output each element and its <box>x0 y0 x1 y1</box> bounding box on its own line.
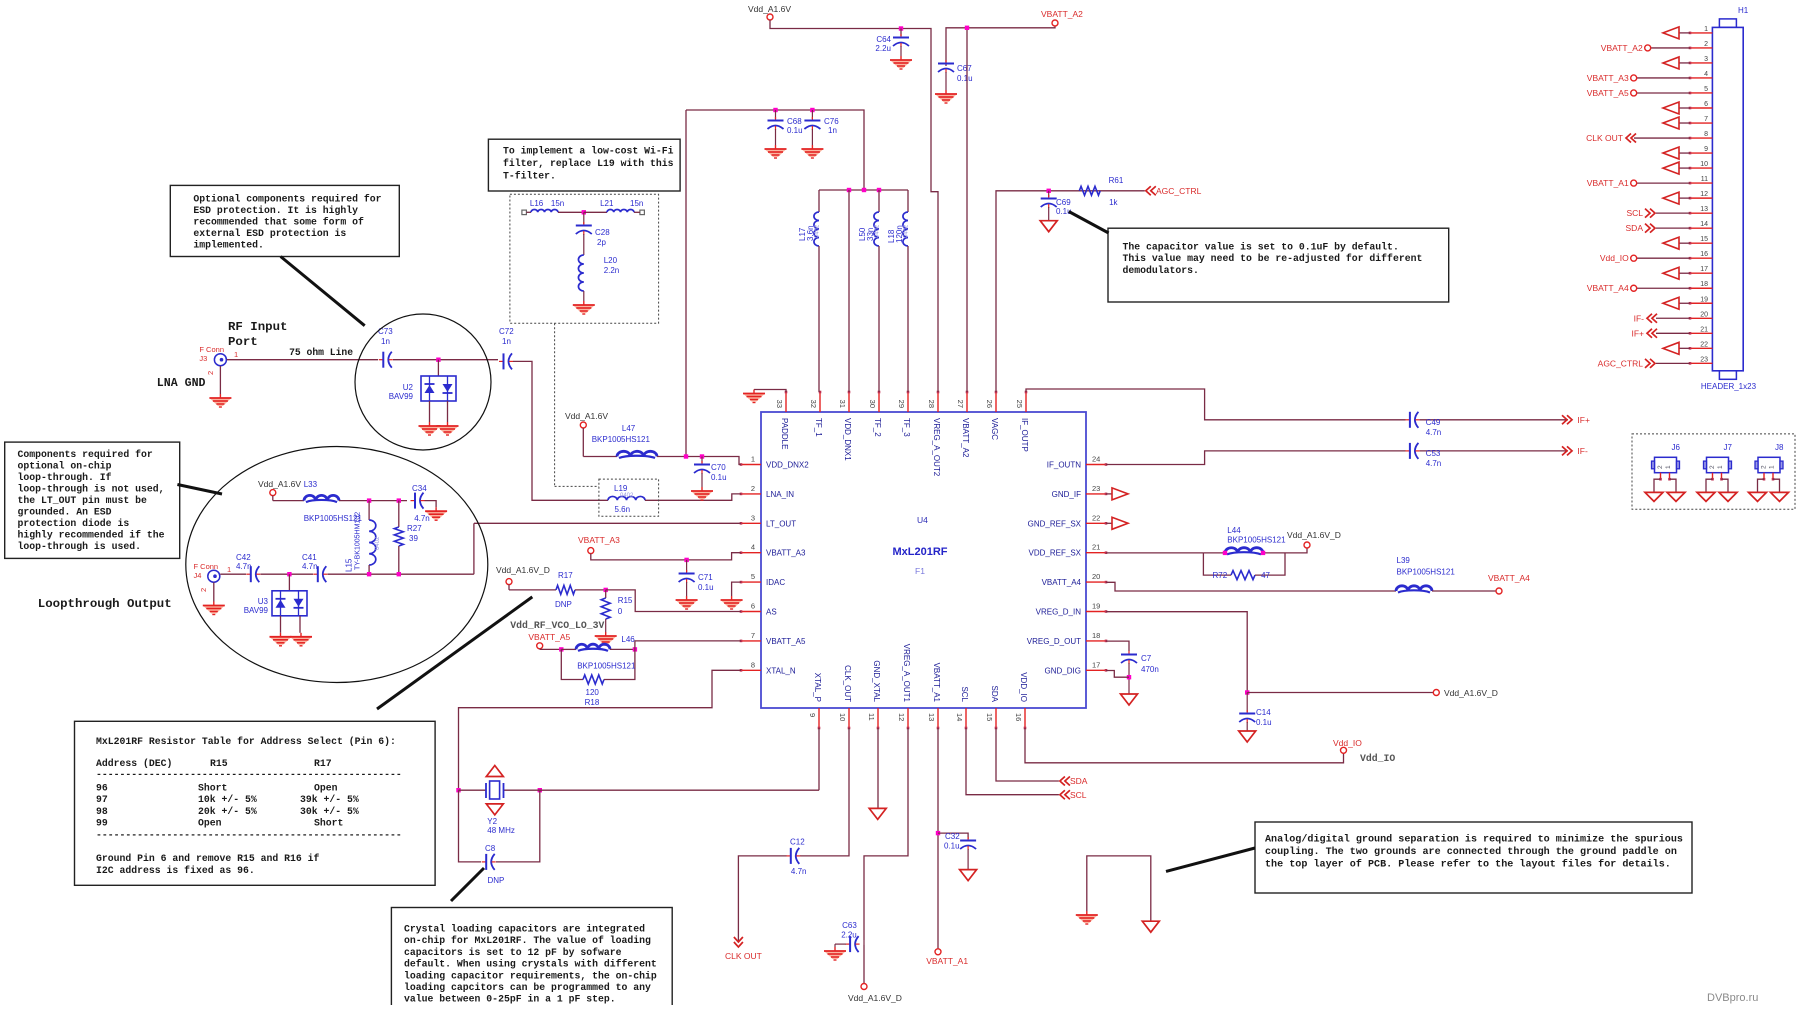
svg-text:VBATT_A5: VBATT_A5 <box>1587 88 1629 98</box>
svg-text:F1: F1 <box>915 566 925 576</box>
svg-text:filter, replace L19 with this: filter, replace L19 with this <box>503 158 674 169</box>
svg-text:VREG_D_IN: VREG_D_IN <box>1036 608 1082 617</box>
svg-text:TF_2: TF_2 <box>873 418 882 437</box>
svg-text:10: 10 <box>838 713 847 721</box>
svg-text:BKP1005HS121: BKP1005HS121 <box>1397 568 1456 577</box>
svg-text:loop-through is not used,: loop-through is not used, <box>18 484 165 495</box>
svg-text:C72: C72 <box>499 327 514 336</box>
svg-text:VBATT_A4: VBATT_A4 <box>1042 578 1082 587</box>
svg-text:15: 15 <box>1700 236 1708 243</box>
svg-text:TF_3: TF_3 <box>902 418 911 437</box>
svg-text:97: 97 <box>96 794 108 805</box>
svg-text:C68: C68 <box>787 117 802 126</box>
svg-text:coupling. The two grounds are: coupling. The two grounds are connected … <box>1265 846 1677 858</box>
svg-text:C8: C8 <box>485 844 496 853</box>
svg-text:PADDLE: PADDLE <box>780 418 789 449</box>
svg-text:Open: Open <box>198 818 222 829</box>
svg-text:20: 20 <box>1092 572 1100 581</box>
svg-text:3: 3 <box>751 513 755 522</box>
svg-text:0: 0 <box>618 607 623 616</box>
svg-text:L16: L16 <box>530 199 544 208</box>
svg-text:SDA: SDA <box>990 686 999 703</box>
svg-text:optional on-chip: optional on-chip <box>18 461 112 472</box>
svg-text:ESD protection. It is highly: ESD protection. It is highly <box>193 205 358 216</box>
svg-text:BKP1005HS121: BKP1005HS121 <box>592 435 651 444</box>
svg-text:22: 22 <box>1092 513 1100 522</box>
svg-text:0402: 0402 <box>375 536 381 550</box>
svg-text:BKP1005HS121: BKP1005HS121 <box>577 662 636 671</box>
svg-text:96: 96 <box>96 783 108 794</box>
svg-text:implemented.: implemented. <box>193 240 264 251</box>
svg-text:20k +/- 5%: 20k +/- 5% <box>198 806 257 817</box>
svg-text:R61: R61 <box>1109 176 1124 185</box>
svg-text:R17: R17 <box>558 571 573 580</box>
svg-text:0402: 0402 <box>620 493 634 499</box>
svg-text:L15: L15 <box>345 558 354 572</box>
svg-text:1: 1 <box>751 455 755 464</box>
svg-text:21: 21 <box>1092 543 1100 552</box>
svg-text:CLK_OUT: CLK_OUT <box>843 665 852 702</box>
svg-text:T-filter.: T-filter. <box>503 171 556 182</box>
svg-text:0.1u: 0.1u <box>711 473 727 482</box>
svg-text:2: 2 <box>751 484 755 493</box>
svg-text:17: 17 <box>1700 266 1708 273</box>
svg-text:19: 19 <box>1700 296 1708 303</box>
svg-text:Short: Short <box>314 818 343 829</box>
svg-text:loop-through is used.: loop-through is used. <box>18 541 141 552</box>
svg-text:1: 1 <box>1665 465 1672 469</box>
svg-text:14: 14 <box>1700 221 1708 228</box>
svg-text:22: 22 <box>1700 341 1708 348</box>
svg-text:I2C address is fixed as 96.: I2C address is fixed as 96. <box>96 865 255 876</box>
svg-text:4.7n: 4.7n <box>236 562 252 571</box>
svg-text:13: 13 <box>1700 206 1708 213</box>
svg-text:BAV99: BAV99 <box>389 392 414 401</box>
svg-text:IF_OUTP: IF_OUTP <box>1020 418 1029 452</box>
svg-text:30: 30 <box>868 400 877 408</box>
svg-text:9: 9 <box>808 713 817 717</box>
svg-text:value between 0-25pF in a 1 pF: value between 0-25pF in a 1 pF step. <box>404 994 616 1005</box>
svg-text:AS: AS <box>766 608 777 617</box>
svg-text:LNA_IN: LNA_IN <box>766 490 794 499</box>
svg-text:C7: C7 <box>1141 654 1152 663</box>
svg-text:R18: R18 <box>585 698 600 707</box>
svg-text:H1: H1 <box>1738 6 1749 15</box>
svg-text:18: 18 <box>1700 281 1708 288</box>
svg-text:0.1u: 0.1u <box>1256 718 1272 727</box>
svg-text:23: 23 <box>1700 356 1708 363</box>
svg-text:C63: C63 <box>842 921 857 930</box>
svg-text:6: 6 <box>751 602 755 611</box>
svg-text:26: 26 <box>985 400 994 408</box>
svg-text:LT_OUT: LT_OUT <box>766 519 796 528</box>
svg-text:2.2n: 2.2n <box>604 266 620 275</box>
svg-text:MxL201RF Resistor Table for Ad: MxL201RF Resistor Table for Address Sele… <box>96 736 396 747</box>
svg-text:13: 13 <box>927 713 936 721</box>
svg-text:Vdd_A1.6V: Vdd_A1.6V <box>748 4 791 14</box>
svg-text:Ground Pin 6 and remove R15 an: Ground Pin 6 and remove R15 and R16 if <box>96 853 320 864</box>
svg-text:Analog/digital ground separati: Analog/digital ground separation is requ… <box>1265 834 1683 846</box>
svg-text:VDD_DNX1: VDD_DNX1 <box>843 418 852 461</box>
svg-text:2: 2 <box>199 588 208 592</box>
svg-text:BKP1005HS121: BKP1005HS121 <box>1227 536 1286 545</box>
svg-text:19: 19 <box>1092 602 1100 611</box>
svg-text:Vdd_A1.6V: Vdd_A1.6V <box>258 479 301 489</box>
svg-text:28: 28 <box>927 400 936 408</box>
svg-text:25: 25 <box>1015 400 1024 408</box>
svg-text:4: 4 <box>751 543 755 552</box>
svg-text:SDA: SDA <box>1070 776 1088 786</box>
svg-text:5: 5 <box>1704 86 1708 93</box>
svg-text:Y2: Y2 <box>487 817 497 826</box>
svg-text:VBATT_A1: VBATT_A1 <box>932 663 941 703</box>
svg-text:C42: C42 <box>236 553 251 562</box>
svg-text:------------------------------: ----------------------------------------… <box>96 830 402 841</box>
svg-text:L47: L47 <box>622 424 636 433</box>
svg-text:Vdd_A1.6V_D: Vdd_A1.6V_D <box>1444 688 1498 698</box>
svg-text:4.7n: 4.7n <box>791 867 807 876</box>
svg-text:------------------------------: ----------------------------------------… <box>96 769 402 780</box>
svg-text:F Conn: F Conn <box>199 345 224 354</box>
svg-text:loading capacitor requirements: loading capacitor requirements, the on-c… <box>404 970 657 981</box>
svg-text:VDD_DNX2: VDD_DNX2 <box>766 461 809 470</box>
svg-text:J6: J6 <box>1672 443 1681 452</box>
svg-text:75 ohm Line: 75 ohm Line <box>289 347 353 358</box>
svg-text:Vdd_IO: Vdd_IO <box>1360 753 1395 764</box>
svg-text:4.7n: 4.7n <box>414 514 430 523</box>
svg-text:R15: R15 <box>210 758 228 769</box>
svg-text:15n: 15n <box>551 199 564 208</box>
svg-text:39: 39 <box>409 534 418 543</box>
svg-text:C14: C14 <box>1256 708 1271 717</box>
svg-text:XTAL_N: XTAL_N <box>766 666 796 675</box>
svg-text:J7: J7 <box>1724 443 1733 452</box>
svg-text:2.2u: 2.2u <box>841 931 857 940</box>
svg-text:0402: 0402 <box>904 224 910 238</box>
svg-text:20: 20 <box>1700 311 1708 318</box>
svg-text:highly recommended if the: highly recommended if the <box>18 530 165 541</box>
svg-text:VBATT_A5: VBATT_A5 <box>766 637 806 646</box>
svg-text:2: 2 <box>1657 465 1664 469</box>
svg-text:C28: C28 <box>595 228 610 237</box>
svg-text:11: 11 <box>1701 176 1708 183</box>
svg-text:VAGC: VAGC <box>990 418 999 440</box>
svg-text:demodulators.: demodulators. <box>1123 265 1199 276</box>
svg-text:HEADER_1x23: HEADER_1x23 <box>1701 382 1757 391</box>
svg-text:48 MHz: 48 MHz <box>487 826 515 835</box>
svg-text:4.7n: 4.7n <box>1426 459 1442 468</box>
svg-text:external ESD protection is: external ESD protection is <box>193 228 346 239</box>
svg-text:Crystal loading capacitors are: Crystal loading capacitors are integrate… <box>404 924 645 935</box>
svg-text:GND_REF_SX: GND_REF_SX <box>1028 519 1082 528</box>
svg-text:6: 6 <box>1704 101 1708 108</box>
svg-text:VREG_A_OUT1: VREG_A_OUT1 <box>902 644 911 703</box>
svg-text:VDD_REF_SX: VDD_REF_SX <box>1029 549 1082 558</box>
svg-text:VBATT_A2: VBATT_A2 <box>1041 9 1083 19</box>
svg-text:47: 47 <box>1261 571 1270 580</box>
svg-text:VREG_A_OUT2: VREG_A_OUT2 <box>932 418 941 477</box>
svg-text:SDA: SDA <box>1626 223 1644 233</box>
svg-text:32: 32 <box>809 400 818 408</box>
svg-text:loop-through. If: loop-through. If <box>18 472 112 483</box>
svg-text:L39: L39 <box>1397 556 1411 565</box>
svg-text:5.6n: 5.6n <box>615 505 631 514</box>
svg-text:VBATT_A3: VBATT_A3 <box>578 535 620 545</box>
svg-text:CLK OUT: CLK OUT <box>725 951 762 961</box>
svg-text:LNA GND: LNA GND <box>157 377 206 390</box>
svg-text:27: 27 <box>956 400 965 408</box>
svg-text:grounded. An ESD: grounded. An ESD <box>18 507 112 518</box>
svg-text:U2: U2 <box>403 383 414 392</box>
svg-text:SCL: SCL <box>960 686 969 702</box>
svg-text:33: 33 <box>775 400 784 408</box>
svg-text:16: 16 <box>1014 713 1023 721</box>
svg-text:4: 4 <box>1704 71 1708 78</box>
svg-text:8: 8 <box>751 660 755 669</box>
svg-text:J3: J3 <box>199 354 207 363</box>
svg-text:R17: R17 <box>314 758 332 769</box>
svg-text:Optional components required f: Optional components required for <box>193 194 381 205</box>
svg-text:16: 16 <box>1700 251 1708 258</box>
svg-text:0.1u: 0.1u <box>957 74 973 83</box>
svg-text:3: 3 <box>1704 56 1708 63</box>
svg-text:2: 2 <box>1709 465 1716 469</box>
svg-text:L20: L20 <box>604 256 618 265</box>
svg-text:TY-BK1005HM102: TY-BK1005HM102 <box>355 512 362 570</box>
svg-text:default. When using crystals: default. When using crystals with differ… <box>404 959 657 970</box>
svg-text:L21: L21 <box>600 199 614 208</box>
svg-text:1: 1 <box>227 565 231 574</box>
svg-text:C69: C69 <box>1056 198 1071 207</box>
svg-text:10: 10 <box>1700 161 1708 168</box>
svg-text:1n: 1n <box>381 337 390 346</box>
svg-text:C67: C67 <box>957 64 972 73</box>
svg-text:1: 1 <box>1704 26 1708 33</box>
svg-text:DVBpro.ru: DVBpro.ru <box>1707 992 1758 1004</box>
svg-text:Vdd_A1.6V_D: Vdd_A1.6V_D <box>1287 530 1341 540</box>
svg-text:VBATT_A5: VBATT_A5 <box>528 632 570 642</box>
svg-text:Short: Short <box>198 783 227 794</box>
svg-text:VBATT_A1: VBATT_A1 <box>926 956 968 966</box>
svg-text:IF+: IF+ <box>1631 328 1644 338</box>
svg-text:L46: L46 <box>621 635 635 644</box>
svg-text:L33: L33 <box>304 480 318 489</box>
svg-text:2: 2 <box>206 371 215 375</box>
svg-text:0402: 0402 <box>815 224 821 238</box>
svg-text:C64: C64 <box>876 35 891 44</box>
svg-text:C53: C53 <box>1426 449 1441 458</box>
svg-text:Vdd_A1.6V_D: Vdd_A1.6V_D <box>496 565 550 575</box>
svg-text:C34: C34 <box>412 484 427 493</box>
svg-text:Open: Open <box>314 783 338 794</box>
svg-text:12: 12 <box>897 713 906 721</box>
svg-text:R15: R15 <box>618 596 633 605</box>
svg-text:L19: L19 <box>614 484 628 493</box>
svg-text:2: 2 <box>1704 41 1708 48</box>
svg-text:470n: 470n <box>1141 665 1159 674</box>
svg-text:C70: C70 <box>711 463 726 472</box>
svg-text:Address (DEC): Address (DEC) <box>96 758 172 769</box>
svg-text:2p: 2p <box>597 238 606 247</box>
svg-text:J4: J4 <box>194 571 202 580</box>
svg-text:VDD_IO: VDD_IO <box>1019 672 1028 702</box>
svg-text:VREG_D_OUT: VREG_D_OUT <box>1027 637 1081 646</box>
svg-text:To implement a low-cost Wi-Fi: To implement a low-cost Wi-Fi <box>503 146 674 157</box>
svg-text:2: 2 <box>1761 465 1768 469</box>
svg-text:the top layer of PCB. Please: the top layer of PCB. Please refer to th… <box>1265 858 1671 870</box>
svg-text:AGC_CTRL: AGC_CTRL <box>1156 186 1202 196</box>
svg-text:C76: C76 <box>824 117 839 126</box>
svg-text:0.1u: 0.1u <box>944 842 960 851</box>
svg-text:0402: 0402 <box>875 224 881 238</box>
svg-text:R27: R27 <box>407 524 422 533</box>
svg-text:Vdd_IO: Vdd_IO <box>1333 738 1362 748</box>
svg-text:L44: L44 <box>1227 526 1241 535</box>
svg-text:recommended that some form of: recommended that some form of <box>193 217 364 228</box>
svg-text:Vdd_A1.6V: Vdd_A1.6V <box>565 411 608 421</box>
svg-text:4.7n: 4.7n <box>1426 428 1442 437</box>
svg-text:BAV99: BAV99 <box>244 606 269 615</box>
svg-text:Port: Port <box>228 335 258 349</box>
svg-text:R72: R72 <box>1213 571 1228 580</box>
svg-text:RF Input: RF Input <box>228 320 288 334</box>
svg-text:15: 15 <box>985 713 994 721</box>
svg-text:1n: 1n <box>502 337 511 346</box>
svg-text:9: 9 <box>1704 146 1708 153</box>
svg-text:11: 11 <box>867 713 876 721</box>
svg-text:7: 7 <box>751 631 755 640</box>
svg-text:on-chip for MxL201RF. The val: on-chip for MxL201RF. The value of loadi… <box>404 935 651 946</box>
svg-text:2.2u: 2.2u <box>875 44 891 53</box>
svg-text:24: 24 <box>1092 455 1100 464</box>
svg-text:C41: C41 <box>302 553 317 562</box>
svg-text:MxL201RF: MxL201RF <box>892 546 947 558</box>
svg-text:VBATT_A2: VBATT_A2 <box>961 418 970 458</box>
svg-text:1: 1 <box>234 350 238 359</box>
svg-text:5: 5 <box>751 572 755 581</box>
svg-text:Loopthrough Output: Loopthrough Output <box>38 597 172 611</box>
svg-text:J8: J8 <box>1775 443 1784 452</box>
svg-text:IF_OUTN: IF_OUTN <box>1047 461 1081 470</box>
svg-text:10k +/- 5%: 10k +/- 5% <box>198 794 257 805</box>
svg-text:18: 18 <box>1092 631 1100 640</box>
svg-text:loading capcitors can be prog: loading capcitors can be programmed to a… <box>404 982 651 993</box>
svg-text:The capacitor value is set to: The capacitor value is set to 0.1uF by d… <box>1123 242 1399 253</box>
svg-text:15n: 15n <box>630 199 643 208</box>
svg-text:99: 99 <box>96 818 108 829</box>
svg-text:AGC_CTRL: AGC_CTRL <box>1598 358 1644 368</box>
svg-text:23: 23 <box>1092 484 1100 493</box>
svg-text:4.7n: 4.7n <box>302 562 318 571</box>
svg-text:GND_IF: GND_IF <box>1052 490 1081 499</box>
svg-text:IF-: IF- <box>1577 446 1588 456</box>
svg-text:XTAL_P: XTAL_P <box>813 673 822 702</box>
svg-text:1: 1 <box>1769 465 1776 469</box>
svg-text:GND_XTAL: GND_XTAL <box>872 660 881 702</box>
svg-text:C12: C12 <box>790 838 805 847</box>
svg-text:0.1u: 0.1u <box>787 126 803 135</box>
svg-text:CLK OUT: CLK OUT <box>1586 133 1623 143</box>
svg-text:GND_DIG: GND_DIG <box>1045 666 1081 675</box>
svg-text:VBATT_A3: VBATT_A3 <box>766 549 806 558</box>
svg-text:8: 8 <box>1704 131 1708 138</box>
svg-text:U4: U4 <box>917 515 928 525</box>
svg-text:VBATT_A4: VBATT_A4 <box>1488 573 1530 583</box>
svg-text:SCL: SCL <box>1070 790 1087 800</box>
svg-text:39k +/- 5%: 39k +/- 5% <box>300 794 359 805</box>
svg-text:30k +/- 5%: 30k +/- 5% <box>300 806 359 817</box>
svg-text:21: 21 <box>1700 326 1708 333</box>
svg-text:VBATT_A4: VBATT_A4 <box>1587 283 1629 293</box>
svg-text:protection diode is: protection diode is <box>18 518 130 529</box>
svg-text:1k: 1k <box>1109 198 1118 207</box>
svg-text:98: 98 <box>96 806 108 817</box>
svg-text:Vdd_A1.6V_D: Vdd_A1.6V_D <box>848 993 902 1003</box>
svg-text:C32: C32 <box>945 832 960 841</box>
svg-text:12: 12 <box>1700 191 1708 198</box>
svg-text:0.1u: 0.1u <box>698 583 714 592</box>
svg-text:DNP: DNP <box>555 600 572 609</box>
svg-text:IF-: IF- <box>1634 313 1645 323</box>
svg-text:C49: C49 <box>1426 418 1441 427</box>
svg-text:120: 120 <box>586 688 600 697</box>
svg-text:SCL: SCL <box>1626 208 1643 218</box>
svg-text:1n: 1n <box>828 126 837 135</box>
svg-text:U3: U3 <box>258 597 269 606</box>
svg-text:VBATT_A1: VBATT_A1 <box>1587 178 1629 188</box>
svg-text:17: 17 <box>1092 660 1100 669</box>
svg-text:This value may need to be re-a: This value may need to be re-adjusted fo… <box>1123 253 1423 264</box>
svg-text:Vdd_IO: Vdd_IO <box>1600 253 1629 263</box>
svg-text:VBATT_A2: VBATT_A2 <box>1601 43 1643 53</box>
svg-text:14: 14 <box>955 713 964 721</box>
svg-text:the LT_OUT pin must be: the LT_OUT pin must be <box>18 495 147 506</box>
svg-text:1: 1 <box>1717 465 1724 469</box>
svg-text:C71: C71 <box>698 573 713 582</box>
svg-text:DNP: DNP <box>488 876 505 885</box>
svg-text:31: 31 <box>838 400 847 408</box>
svg-text:VBATT_A3: VBATT_A3 <box>1587 73 1629 83</box>
svg-text:TF_1: TF_1 <box>814 418 823 437</box>
svg-text:capacitors is set to 12 pF by: capacitors is set to 12 pF by sofware <box>404 947 622 958</box>
svg-text:7: 7 <box>1704 116 1708 123</box>
svg-text:IDAC: IDAC <box>766 578 785 587</box>
svg-text:Components required for: Components required for <box>18 449 153 460</box>
svg-text:29: 29 <box>897 400 906 408</box>
svg-text:Vdd_RF_VCO_LO_3V: Vdd_RF_VCO_LO_3V <box>510 620 604 631</box>
svg-text:IF+: IF+ <box>1577 415 1590 425</box>
